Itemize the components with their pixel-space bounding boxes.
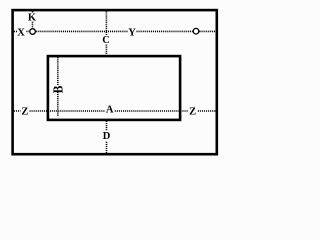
wire: dotted line border-to-X segment	[14, 30, 18, 32]
wire: dotted Z line A-to-Z-right segment	[115, 110, 189, 112]
wire: dotted Z line Z-to-A segment	[30, 110, 106, 112]
wire: dotted vertical C-to-inner-rect segment	[105, 45, 107, 55]
svg-text:K: K	[28, 13, 37, 24]
wire: dotted vertical D-to-border segment	[106, 142, 108, 154]
wire: dotted Z line border-to-Z-left segment	[14, 110, 21, 112]
wire: dotted line right-circle-to-border segment	[200, 30, 217, 32]
wire: dotted line circle-to-Y segment (passes node C)	[36, 30, 127, 32]
wire: dotted vertical B line bottom segment	[57, 92, 59, 117]
svg-text:D: D	[103, 131, 111, 142]
node: small open circle on right (after Y)	[193, 28, 199, 34]
svg-text:X: X	[17, 28, 25, 39]
svg-text:A: A	[106, 105, 114, 116]
svg-text:B: B	[50, 85, 65, 93]
wire: dotted vertical K-to-circle segment	[32, 22, 34, 29]
wire: dotted line Y-to-right-circle segment	[137, 30, 193, 32]
node: small open circle on left (below K)	[30, 29, 36, 35]
wire: dotted vertical D line rect-to-D segment	[106, 121, 108, 130]
outer boundary rectangle	[13, 10, 217, 154]
wire: dotted Z line Z-to-border segment	[198, 110, 217, 112]
svg-text:Z: Z	[21, 107, 28, 118]
wire: dotted line X-to-circle segment	[26, 30, 29, 32]
svg-text:Y: Y	[128, 28, 136, 39]
svg-text:C: C	[102, 35, 110, 46]
svg-text:Z: Z	[189, 107, 196, 118]
wire: dotted vertical K line border-to-K segment	[32, 11, 34, 13]
wire: dotted vertical C line border-to-C segment	[105, 11, 107, 35]
wire: dotted vertical B line top segment	[57, 57, 59, 85]
inner rectangle (region)	[48, 56, 180, 120]
